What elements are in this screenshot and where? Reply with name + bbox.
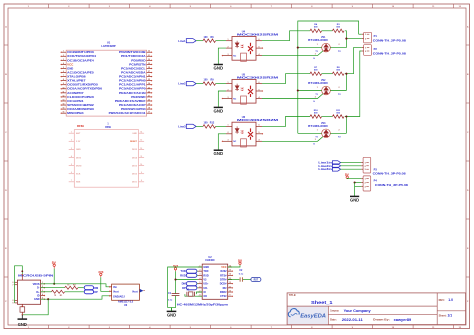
wire P4 pin2 to ground bbox=[355, 182, 362, 184]
svg-text:7: 7 bbox=[71, 180, 72, 182]
wire U2 XO to crystal X1 bbox=[185, 294, 202, 296]
opto U6 pin2 cathode bbox=[226, 133, 232, 135]
svg-text:Vin: Vin bbox=[113, 285, 117, 289]
svg-text:DP: DP bbox=[94, 290, 98, 294]
resistor R11 500 bbox=[332, 115, 344, 118]
wire channel3 T2 node to P2 pin2 bbox=[345, 51, 362, 133]
capacitor C1 0.1u bbox=[172, 293, 180, 295]
svg-text:4: 4 bbox=[259, 96, 260, 99]
svg-text:XO: XO bbox=[203, 295, 207, 298]
module RF69 right pin DIO4 bbox=[139, 157, 145, 159]
junction ground rail bbox=[21, 314, 23, 316]
svg-text:ID: ID bbox=[37, 294, 40, 297]
svg-text:D+: D+ bbox=[36, 291, 40, 294]
svg-text:PC6/RSTN: PC6/RSTN bbox=[129, 62, 145, 66]
connector P3 CONN-TH_3P-P5.08 body bbox=[363, 157, 371, 173]
svg-text:8: 8 bbox=[141, 180, 142, 182]
svg-text:TITLE:: TITLE: bbox=[289, 294, 297, 297]
svg-text:9: 9 bbox=[13, 303, 14, 305]
svg-text:DIO1: DIO1 bbox=[132, 182, 138, 184]
wire opto U5 pin4 to triac VS2 gate bbox=[262, 94, 323, 99]
svg-text:BT136S-600D: BT136S-600D bbox=[308, 40, 328, 42]
svg-text:RST: RST bbox=[254, 280, 259, 282]
svg-text:12: 12 bbox=[229, 282, 231, 284]
connector USB pin1 VBUS bbox=[41, 283, 45, 285]
svg-text:3: 3 bbox=[200, 274, 201, 276]
module RF69 right pin GND bbox=[139, 132, 145, 134]
svg-text:5: 5 bbox=[63, 67, 64, 69]
svg-text:3.3V: 3.3V bbox=[76, 141, 81, 143]
connector P3 pin3 bbox=[361, 168, 363, 170]
svg-text:1: 1 bbox=[228, 125, 229, 127]
resistor R10 500 bbox=[310, 115, 322, 118]
resistor R8 500 bbox=[332, 72, 344, 75]
triac VS1 BT136S-600D bbox=[322, 43, 331, 52]
svg-text:5: 5 bbox=[200, 282, 201, 284]
wire triac VS1 T1 channel 1 bbox=[298, 47, 322, 49]
svg-text:EasyEDA: EasyEDA bbox=[300, 314, 326, 320]
svg-text:OC1A/PB1: OC1A/PB1 bbox=[67, 99, 84, 103]
opto U4 pin6 bbox=[256, 40, 262, 42]
svg-text:PD1/TXD/OC3A: PD1/TXD/OC3A bbox=[121, 54, 146, 58]
mcu U1 left pin 13 OC1A/PB1 bbox=[62, 100, 67, 102]
svg-text:BT136S-600D: BT136S-600D bbox=[308, 126, 328, 128]
svg-text:UD-: UD- bbox=[203, 287, 208, 290]
svg-text:1: 1 bbox=[317, 44, 318, 46]
wire USB shell ground loop bbox=[15, 266, 23, 303]
svg-text:RXD: RXD bbox=[180, 273, 186, 277]
svg-text:PC2/ADC2/APN0: PC2/ADC2/APN0 bbox=[119, 79, 146, 83]
junction T1 channel1 bbox=[297, 47, 299, 49]
ground GND opto channel 3 bbox=[214, 149, 223, 151]
svg-text:NC: NC bbox=[233, 98, 237, 100]
svg-text:15: 15 bbox=[229, 270, 231, 272]
mcu U1 right pin 17 PB5/SCK/AC1P/ADC11 bbox=[147, 112, 152, 114]
svg-text:Drawn By:: Drawn By: bbox=[373, 317, 390, 321]
wire between R7 and R8 bbox=[322, 73, 333, 75]
svg-text:6: 6 bbox=[13, 282, 14, 284]
regulator U3 pin Vout left bbox=[109, 290, 111, 292]
mcu U1 right pin 28 PC5/ADC5/SCL bbox=[147, 67, 152, 69]
junction channel3 T2 node bbox=[345, 115, 347, 117]
svg-text:5: 5 bbox=[259, 89, 260, 91]
svg-text:30: 30 bbox=[148, 59, 150, 61]
resistor R1 75 bbox=[51, 290, 64, 293]
svg-text:VS3: VS3 bbox=[321, 123, 326, 125]
wire DTR# to capacitor C2 bbox=[228, 279, 240, 281]
svg-text:OC1B/OC3A/PE4: OC1B/OC3A/PE4 bbox=[67, 58, 94, 62]
svg-text:CONN-TH_2P-P5.08: CONN-TH_2P-P5.08 bbox=[373, 52, 407, 55]
svg-text:15: 15 bbox=[62, 108, 64, 110]
connector USB pin5 GND bbox=[41, 298, 45, 300]
opto U4 internal triac bbox=[248, 43, 253, 54]
svg-text:Line3in: Line3in bbox=[318, 168, 332, 171]
svg-text:2: 2 bbox=[339, 87, 340, 89]
svg-text:11: 11 bbox=[229, 286, 231, 288]
svg-text:PC5/ADC5/SCL: PC5/ADC5/SCL bbox=[121, 66, 146, 70]
module RF69 right pin DIO2 bbox=[139, 173, 145, 175]
ic U2 right pin R232 bbox=[228, 270, 232, 272]
junction VBUS 5V bbox=[53, 283, 55, 285]
svg-text:2: 2 bbox=[228, 89, 229, 91]
svg-text:VCC: VCC bbox=[67, 62, 73, 66]
wire opto U6 pin4 to triac VS3 gate bbox=[262, 137, 323, 142]
ic U2 left pin XO bbox=[198, 295, 202, 297]
mcu U1 left pin 8 XTALI/PB7 bbox=[62, 80, 67, 82]
svg-text:1/1: 1/1 bbox=[448, 314, 453, 318]
wire opto U4 pin6 up to snubber row channel 1 bbox=[262, 31, 310, 41]
resistor R2 75 bbox=[65, 286, 78, 289]
resistor R7 500 bbox=[310, 72, 322, 75]
svg-text:32: 32 bbox=[148, 51, 150, 53]
opto U6 pin6 bbox=[256, 125, 262, 127]
svg-text:XI: XI bbox=[203, 291, 206, 294]
svg-text:1: 1 bbox=[63, 51, 64, 53]
wire P4 pin3 to ground bbox=[355, 183, 362, 197]
ground GND opto channel 2 bbox=[214, 106, 223, 108]
wire Line2 to resistor R9 bbox=[196, 83, 203, 85]
svg-text:DIO4: DIO4 bbox=[132, 156, 138, 159]
opto U6 pin1 anode bbox=[226, 125, 232, 127]
svg-text:GND: GND bbox=[167, 312, 176, 317]
wire USB GND down to rail bbox=[22, 299, 48, 315]
ic U2 left pin UD- bbox=[198, 287, 202, 289]
svg-text:DM: DM bbox=[94, 286, 98, 290]
svg-text:26: 26 bbox=[148, 75, 150, 77]
connector P2 pin1 bbox=[362, 47, 364, 49]
svg-text:2: 2 bbox=[71, 140, 72, 142]
svg-text:1: 1 bbox=[71, 132, 72, 134]
svg-text:GND: GND bbox=[214, 108, 224, 113]
svg-text:P4: P4 bbox=[374, 179, 378, 183]
svg-text:11: 11 bbox=[140, 156, 142, 158]
wire C1 to ground bbox=[168, 296, 176, 308]
mcu U1 left pin 5 GND bbox=[62, 67, 67, 69]
junction channel1 T2 node bbox=[345, 38, 347, 40]
svg-text:DIO3: DIO3 bbox=[132, 165, 138, 167]
wire triac VS1 T2 channel 1 bbox=[330, 47, 346, 49]
svg-text:23: 23 bbox=[148, 87, 150, 89]
svg-text:CLKO/ICP1/PB0: CLKO/ICP1/PB0 bbox=[67, 95, 94, 99]
wire USB GND to U3 GND/ADJ bbox=[48, 296, 109, 299]
svg-text:5: 5 bbox=[259, 46, 260, 48]
svg-text:2: 2 bbox=[228, 46, 229, 48]
svg-text:10: 10 bbox=[62, 87, 64, 89]
svg-text:0.1u: 0.1u bbox=[168, 300, 173, 302]
svg-text:6: 6 bbox=[259, 39, 260, 41]
resistor R3 500 bbox=[332, 29, 344, 32]
ic U2 left pin GND bbox=[198, 266, 202, 268]
wire 5V to P4 pin1 bbox=[347, 177, 361, 180]
svg-text:13: 13 bbox=[140, 140, 142, 142]
logo EasyEDA cloud bbox=[288, 309, 299, 317]
ground GND at U2 bbox=[171, 308, 173, 312]
svg-text:REV:: REV: bbox=[439, 298, 445, 302]
junction V3 bbox=[174, 278, 176, 280]
svg-text:9: 9 bbox=[230, 295, 231, 297]
svg-text:18: 18 bbox=[148, 108, 150, 110]
junction P4 pin2 bbox=[354, 181, 356, 183]
svg-text:8: 8 bbox=[63, 79, 64, 81]
connector USB body bbox=[17, 280, 40, 304]
opto U4 pin1 anode bbox=[226, 40, 232, 42]
svg-text:PC0/ADC0/APP0: PC0/ADC0/APP0 bbox=[119, 87, 146, 91]
svg-text:RI#: RI# bbox=[223, 287, 228, 290]
regulator U3 pin Vin bbox=[109, 286, 111, 288]
svg-text:PB5/SCK/AC1P/ADC11: PB5/SCK/AC1P/ADC11 bbox=[109, 111, 147, 115]
wire R1 to choke DP bbox=[65, 291, 84, 293]
svg-text:BT136S-600D: BT136S-600D bbox=[308, 83, 328, 85]
svg-text:xawyer89: xawyer89 bbox=[394, 318, 412, 322]
svg-text:GND: GND bbox=[214, 151, 224, 156]
wire Line1in to P3 pin1 bbox=[341, 162, 362, 164]
connector P4 pin1 bbox=[361, 178, 363, 180]
connector USB shell pins bbox=[15, 281, 18, 283]
mcu U1 left pin 16 MISO/PB4 bbox=[62, 112, 67, 114]
svg-text:3: 3 bbox=[71, 148, 72, 150]
svg-text:17: 17 bbox=[148, 112, 150, 114]
svg-text:GND: GND bbox=[18, 322, 27, 327]
module RF69 left pin ANT bbox=[69, 132, 75, 134]
svg-text:SPSS/OC1B/PB2: SPSS/OC1B/PB2 bbox=[67, 103, 94, 107]
svg-text:4: 4 bbox=[259, 139, 260, 142]
svg-text:NC: NC bbox=[233, 55, 237, 57]
svg-text:VBUS: VBUS bbox=[33, 283, 40, 286]
svg-text:DSR#: DSR# bbox=[220, 291, 227, 294]
svg-text:1: 1 bbox=[228, 82, 229, 84]
svg-text:1: 1 bbox=[317, 130, 318, 132]
mcu U1 left pin 3 OC1B/OC3A/PE4 bbox=[62, 59, 67, 61]
svg-text:2: 2 bbox=[339, 44, 340, 46]
svg-text:6: 6 bbox=[63, 71, 64, 73]
netport RST bbox=[251, 277, 261, 281]
module RF69 body bbox=[74, 130, 138, 188]
wire C2 to netport RST bbox=[243, 279, 251, 281]
svg-text:Line2: Line2 bbox=[178, 82, 186, 86]
wire triac VS3 T1 channel 3 bbox=[298, 132, 322, 134]
svg-text:CONN-TH_3P-P5.08: CONN-TH_3P-P5.08 bbox=[375, 184, 409, 187]
connector P2 CONN-TH_2P-P5.08 body bbox=[364, 45, 372, 56]
svg-text:DP: DP bbox=[182, 286, 186, 290]
opto U5 pin1 anode bbox=[226, 83, 232, 85]
svg-text:21: 21 bbox=[148, 95, 150, 97]
svg-text:Line1: Line1 bbox=[178, 39, 186, 43]
regulator U3 pin GND/ADJ bbox=[109, 295, 111, 297]
svg-text:OC2B/INT1/PD3: OC2B/INT1/PD3 bbox=[67, 50, 94, 54]
svg-text:RXD: RXD bbox=[203, 274, 208, 277]
frame row ticks and letters bbox=[4, 45, 470, 277]
wire opto U4 pin2 to ground bbox=[218, 48, 226, 64]
svg-text:1.0: 1.0 bbox=[448, 298, 453, 302]
svg-text:PE3/ADC7/AC1N: PE3/ADC7/AC1N bbox=[119, 91, 146, 95]
svg-text:8: 8 bbox=[13, 300, 14, 302]
module RF69 left pin NSS bbox=[69, 181, 75, 183]
opto U4 internal sub-box bbox=[241, 53, 247, 61]
mcu U1 right pin 30 PD0/RXD bbox=[147, 59, 152, 61]
regulator U3 AMS1117-3.3 body bbox=[112, 284, 140, 300]
mcu U1 left pin 4 VCC bbox=[62, 63, 67, 65]
mcu U1 right pin 20 PE6/ADC15/AVREF bbox=[147, 100, 152, 102]
ic U2 left pin RXD bbox=[198, 274, 202, 276]
module RF69 left pin DIO0 bbox=[69, 157, 75, 159]
svg-text:24: 24 bbox=[148, 82, 150, 85]
wire triac VS2 T1 channel 2 bbox=[298, 90, 322, 92]
connector P3 pin1 bbox=[361, 162, 363, 164]
wire U2 GND pin to ground bbox=[168, 267, 203, 308]
svg-text:MOSI: MOSI bbox=[76, 165, 82, 167]
svg-text:PE6/ADC15/AVREF: PE6/ADC15/AVREF bbox=[115, 99, 146, 103]
connector P1 pin2 bbox=[362, 38, 364, 40]
svg-text:7: 7 bbox=[63, 75, 64, 77]
svg-text:4: 4 bbox=[63, 62, 64, 65]
svg-text:MOC3062SR2M: MOC3062SR2M bbox=[237, 119, 278, 122]
resistor R9 100 bbox=[203, 82, 216, 85]
svg-text:3: 3 bbox=[228, 54, 229, 56]
svg-text:HC-49SM/12MHz/20pF/30ppm: HC-49SM/12MHz/20pF/30ppm bbox=[177, 303, 229, 306]
junction USB shield bbox=[21, 270, 23, 272]
svg-text:P2: P2 bbox=[374, 47, 378, 51]
svg-text:RF69: RF69 bbox=[105, 127, 111, 129]
opto U6 internal LED bbox=[235, 126, 239, 133]
wire U2 XI to crystal X1 bbox=[196, 292, 202, 294]
module RF69 left pin MOSI bbox=[69, 165, 75, 167]
svg-text:GND/ADJ: GND/ADJ bbox=[113, 294, 125, 298]
svg-text:PE2/SWD: PE2/SWD bbox=[131, 95, 145, 99]
svg-text:MOC3062SR2M: MOC3062SR2M bbox=[237, 34, 278, 37]
connector P1 CONN-TH_2P-P5.08 body bbox=[364, 32, 372, 43]
ic U2 right pin RI# bbox=[228, 287, 232, 289]
ic U2 left pin XI bbox=[198, 291, 202, 293]
mcu U1 left pin 1 OC2B/INT1/PD3 bbox=[62, 51, 67, 53]
svg-text:2022-01-11: 2022-01-11 bbox=[342, 318, 363, 322]
wire triac VS2 T2 channel 2 bbox=[330, 90, 346, 92]
svg-text:2: 2 bbox=[200, 270, 201, 272]
svg-text:1: 1 bbox=[317, 87, 318, 89]
opto U4 internal LED bbox=[235, 41, 239, 48]
svg-text:ANT: ANT bbox=[76, 132, 81, 135]
svg-text:PD2/INT0/OC3B: PD2/INT0/OC3B bbox=[119, 50, 146, 54]
svg-text:XTALO/PB6: XTALO/PB6 bbox=[67, 75, 86, 79]
resistor R12 100 bbox=[203, 125, 216, 128]
ic U2 right pin DSR# bbox=[228, 291, 232, 293]
capacitor C2 0.1u bbox=[239, 277, 241, 281]
svg-text:RTS#: RTS# bbox=[220, 274, 227, 277]
fuse F1 under USB bbox=[21, 304, 23, 306]
svg-text:22: 22 bbox=[148, 91, 150, 93]
svg-text:SCK: SCK bbox=[76, 174, 81, 176]
resistor R4 500 bbox=[310, 29, 322, 32]
svg-text:29: 29 bbox=[148, 63, 150, 65]
svg-text:14: 14 bbox=[62, 103, 64, 106]
svg-text:4: 4 bbox=[42, 293, 43, 296]
svg-text:11: 11 bbox=[63, 91, 65, 93]
svg-text:PC3/ADC3/APN1: PC3/ADC3/APN1 bbox=[119, 75, 146, 79]
junction USB GND bbox=[47, 298, 49, 300]
svg-text:GND: GND bbox=[132, 133, 137, 135]
svg-text:2: 2 bbox=[339, 130, 340, 132]
svg-text:ACXN/PD7: ACXN/PD7 bbox=[67, 91, 84, 95]
svg-text:3: 3 bbox=[315, 96, 316, 98]
mcu U1 right pin 19 PE1/ADC6/ACXP bbox=[147, 104, 152, 106]
opto U4 pin5 bbox=[256, 47, 262, 49]
ic U2 right pin DCD# bbox=[228, 283, 232, 285]
wire R2 to choke DM bbox=[78, 287, 84, 289]
wire 5V flag to VBUS bbox=[53, 269, 55, 284]
mcu U1 LGT8F328P body bbox=[66, 50, 146, 116]
mcu U1 right pin 31 PD1/TXD/OC3A bbox=[147, 55, 152, 57]
svg-text:DIO0: DIO0 bbox=[76, 157, 82, 159]
ic U2 right pin VCC bbox=[228, 266, 232, 268]
wire resistor R9 to opto U5 pin1 bbox=[216, 83, 226, 85]
connector P4 pin3 bbox=[361, 185, 363, 187]
svg-text:6: 6 bbox=[259, 82, 260, 84]
mcu U1 right pin 23 PC0/ADC0/APP0 bbox=[147, 88, 152, 90]
svg-text:P3: P3 bbox=[374, 167, 378, 171]
triac VS3 BT136S-600D bbox=[322, 129, 331, 138]
mcu U1 left pin 10 OC0A/AC0P/TXD/PD6 bbox=[62, 88, 67, 90]
svg-text:6: 6 bbox=[259, 125, 260, 127]
opto U4 MOC3062SR2M body bbox=[232, 37, 256, 61]
connector USB pin2 D- bbox=[41, 287, 45, 289]
svg-text:UD+: UD+ bbox=[203, 283, 209, 286]
svg-text:PC1/ADC1/APP1: PC1/ADC1/APP1 bbox=[119, 83, 146, 87]
module RF69 left pin GND bbox=[69, 148, 75, 150]
svg-text:PC4/ADC4/SDA: PC4/ADC4/SDA bbox=[121, 70, 146, 74]
connector P3 pin2 bbox=[361, 165, 363, 167]
svg-text:25: 25 bbox=[148, 79, 150, 81]
svg-text:PD0/RXD: PD0/RXD bbox=[131, 58, 145, 62]
svg-text:AC1O/OC3A/PE5: AC1O/OC3A/PE5 bbox=[67, 70, 94, 74]
mcu U1 left pin 7 XTALO/PB6 bbox=[62, 76, 67, 78]
svg-text:R12: R12 bbox=[210, 122, 215, 125]
svg-text:3: 3 bbox=[228, 97, 229, 99]
svg-text:10: 10 bbox=[140, 164, 142, 166]
svg-text:12: 12 bbox=[140, 148, 142, 150]
title block dividers bbox=[287, 293, 466, 325]
svg-text:0.1u: 0.1u bbox=[239, 274, 244, 276]
resistor R6 100 bbox=[203, 39, 216, 42]
wire D+ to resistor R1 bbox=[41, 291, 52, 293]
svg-text:DCD#: DCD# bbox=[220, 283, 227, 286]
ground GND at USB bbox=[21, 315, 23, 319]
title block outline bbox=[287, 293, 466, 325]
svg-text:CONN-TH_3P-P5.08: CONN-TH_3P-P5.08 bbox=[373, 173, 407, 176]
wire opto U6 pin6 up to snubber row channel 3 bbox=[262, 117, 310, 127]
wire T1 rail to P1 pin1 bbox=[359, 33, 362, 35]
svg-text:4: 4 bbox=[259, 53, 260, 56]
mcu U1 right pin 24 PC1/ADC1/APP1 bbox=[147, 84, 152, 86]
svg-text:GND: GND bbox=[203, 266, 209, 269]
svg-text:6: 6 bbox=[71, 172, 72, 174]
svg-text:3: 3 bbox=[228, 140, 229, 142]
svg-text:OC2A/MOSI/PB3: OC2A/MOSI/PB3 bbox=[67, 107, 94, 111]
wire D- to resistor R2 bbox=[41, 287, 65, 289]
svg-text:10: 10 bbox=[229, 290, 231, 292]
svg-text:28: 28 bbox=[148, 67, 150, 69]
svg-text:3: 3 bbox=[315, 139, 316, 141]
opto U5 internal sub-box bbox=[241, 96, 247, 104]
module RF69 right pin DIO1 bbox=[139, 181, 145, 183]
ic U2 left pin TXD bbox=[198, 270, 202, 272]
wire channel1 T2 node to P1 pin2 bbox=[345, 31, 362, 48]
wire between R4 and R3 bbox=[322, 30, 333, 32]
opto U4 pin3 NC bbox=[223, 55, 232, 57]
svg-text:2: 2 bbox=[228, 132, 229, 134]
svg-text:13: 13 bbox=[62, 99, 64, 101]
svg-text:100: 100 bbox=[204, 79, 209, 82]
opto U6 pin5 bbox=[256, 133, 262, 135]
svg-text:MISO/PB4: MISO/PB4 bbox=[67, 111, 84, 115]
